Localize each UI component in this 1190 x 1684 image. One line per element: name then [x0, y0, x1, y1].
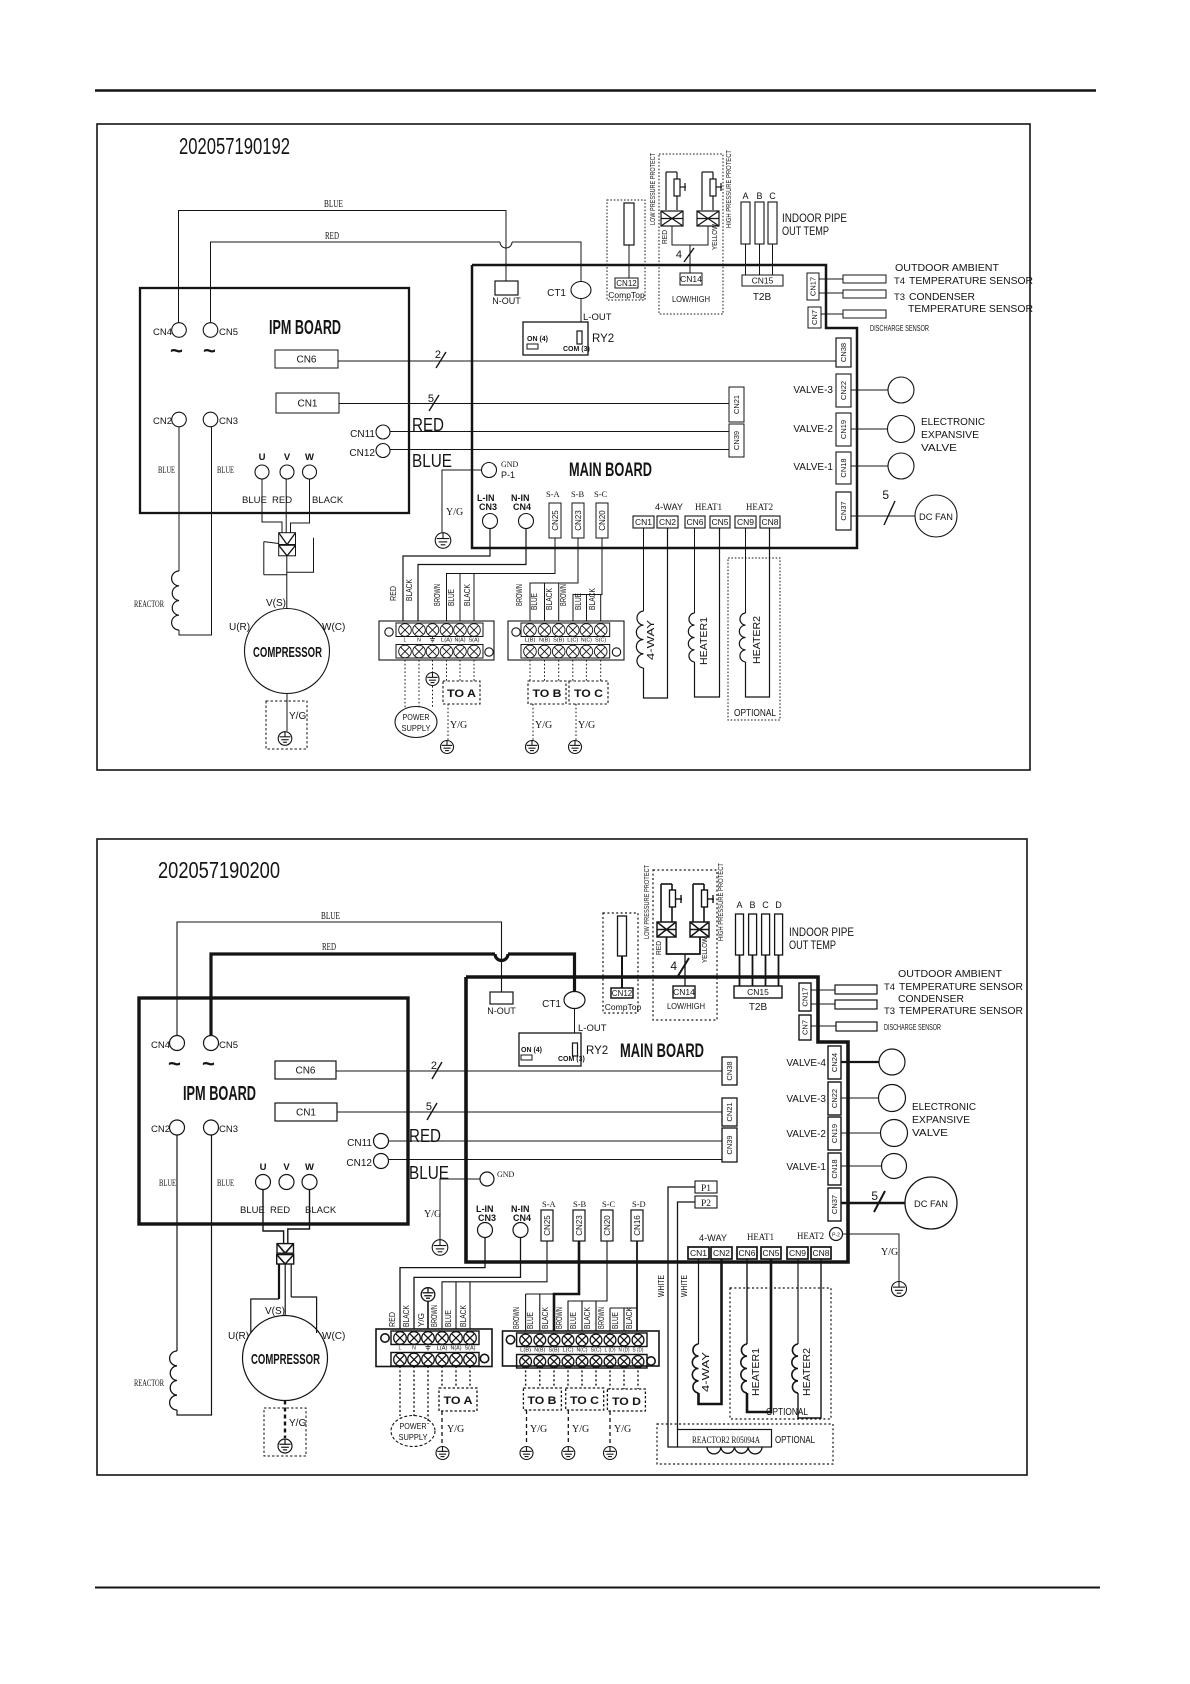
svg-text:VALVE: VALVE	[921, 443, 957, 454]
svg-text:S-B: S-B	[571, 489, 585, 499]
valve-3 coil (d2)	[879, 1085, 906, 1112]
wire CN18 to valve-1 (d2)	[841, 1165, 881, 1167]
wire compressor to ground (d2)	[284, 1401, 286, 1439]
diagram 1 border frame	[97, 124, 1030, 770]
wire label BLUE under CN3 (d1)	[217, 465, 234, 475]
svg-text:VALVE-1: VALVE-1	[793, 462, 833, 473]
wire CN19 to valve-2 (d2)	[841, 1132, 880, 1134]
wires to TO B box (d2)	[526, 1366, 554, 1388]
wire CN19 to valve-2 (d1)	[851, 428, 887, 430]
label BLACK tb1 (d1)	[405, 578, 414, 601]
connector CN8 heat (d2)	[811, 1247, 831, 1259]
wire CN1 to CN21 with 5-slash (d2)	[337, 1101, 722, 1120]
label S-B (d2)	[573, 1199, 587, 1209]
AC tilde under CN5 (d1)	[203, 338, 216, 363]
svg-text:BLUE: BLUE	[159, 1178, 176, 1188]
IPM board title (d1)	[269, 317, 341, 339]
ground symbol P-2 (d2)	[892, 1282, 907, 1297]
4-way valve coil (d2)	[692, 1259, 721, 1404]
svg-text:CN38: CN38	[725, 1061, 734, 1080]
connector CN25 (d2)	[541, 1210, 553, 1241]
svg-text:HEATER1: HEATER1	[699, 617, 710, 665]
svg-text:W(C): W(C)	[322, 622, 345, 633]
connector CN22 (d1)	[836, 374, 851, 407]
label outdoor ambient (d1)	[894, 263, 1033, 315]
svg-text:B: B	[749, 900, 755, 910]
svg-text:RED: RED	[270, 1205, 290, 1216]
svg-text:N(C): N(C)	[581, 638, 592, 644]
svg-text:CN37: CN37	[839, 501, 848, 520]
connector CN16 (d2)	[631, 1210, 643, 1241]
svg-text:BROWN: BROWN	[512, 1307, 521, 1329]
plug A (d2)	[736, 900, 744, 986]
wire BLUE CN12 to CN39 (d2)	[389, 1160, 723, 1184]
svg-text:VALVE-2: VALVE-2	[793, 424, 833, 435]
wire TO C to ground (d2)	[567, 1410, 569, 1445]
svg-text:MAIN BOARD: MAIN BOARD	[569, 460, 652, 481]
svg-text:Y/G: Y/G	[572, 1424, 589, 1435]
svg-text:N(B): N(B)	[534, 1348, 545, 1354]
wire W to rectifier (d1)	[291, 479, 310, 533]
svg-text:RY2: RY2	[586, 1045, 608, 1057]
wire earth to ground (d1)	[432, 660, 434, 707]
svg-text:CONDENSER: CONDENSER	[909, 292, 975, 303]
svg-text:N-OUT: N-OUT	[492, 296, 521, 306]
connector CN1 4way (d1)	[633, 516, 654, 528]
svg-text:Y/G: Y/G	[881, 1247, 898, 1258]
svg-text:CN6: CN6	[738, 1248, 755, 1258]
svg-text:BLUE: BLUE	[242, 495, 267, 506]
svg-text:HEATER2: HEATER2	[802, 1348, 813, 1396]
label BROWN tb2 (d1)	[515, 584, 524, 606]
MAIN BOARD outline (d1)	[472, 265, 857, 548]
label U(R) (d1)	[229, 622, 250, 633]
junction box TO A (d2)	[439, 1388, 477, 1411]
connector CN12 CompTop (d1)	[608, 278, 645, 300]
connector CN37 (d2)	[828, 1188, 841, 1221]
plug D (d2)	[775, 900, 783, 986]
wire L-IN CN3 to terminal L (d2)	[400, 1238, 485, 1330]
label outdoor ambient (d2)	[884, 969, 1023, 1017]
svg-text:T3: T3	[884, 1006, 895, 1017]
svg-text:S-B: S-B	[573, 1199, 587, 1209]
wire reactor to CN3 (d2)	[177, 1135, 212, 1415]
wire CN16 to terminals D (d2)	[610, 1241, 637, 1331]
connector CN3 (d1)	[203, 412, 238, 427]
svg-text:~: ~	[202, 1051, 215, 1076]
label HEAT1 (d2)	[747, 1232, 774, 1242]
svg-text:VALVE-3: VALVE-3	[793, 385, 833, 396]
discharge sensor (d2)	[836, 1022, 877, 1031]
svg-text:HEAT2: HEAT2	[746, 502, 773, 512]
svg-text:IPM BOARD: IPM BOARD	[269, 317, 341, 339]
svg-text:RED: RED	[412, 415, 444, 435]
svg-text:4-WAY: 4-WAY	[699, 1233, 727, 1243]
svg-text:CN20: CN20	[598, 510, 607, 531]
wire CN23 to terminals B (d2)	[526, 1241, 579, 1331]
connector L-IN CN3 (d1)	[477, 493, 498, 529]
valve-4 coil (d2)	[879, 1049, 905, 1075]
wire L to power supply (d1)	[404, 660, 406, 708]
wire switches to CN14 with 4-slash (d2)	[667, 937, 701, 986]
MAIN BOARD outline (d2)	[466, 977, 848, 1262]
connector N-IN CN4 (d2)	[511, 1204, 531, 1238]
svg-text:RY2: RY2	[592, 333, 614, 345]
label REACTOR (d2)	[134, 1378, 164, 1388]
funnel left to compressor (d2)	[251, 1299, 279, 1333]
svg-text:N(A): N(A)	[455, 638, 466, 644]
svg-text:RED: RED	[409, 1126, 441, 1146]
svg-text:RED: RED	[322, 942, 336, 953]
MAIN BOARD title (d2)	[620, 1041, 704, 1062]
svg-text:Y/G: Y/G	[578, 720, 595, 731]
connector CN38 (d1)	[836, 338, 851, 367]
svg-text:COMPRESSOR: COMPRESSOR	[251, 1351, 320, 1368]
svg-text:DC FAN: DC FAN	[919, 512, 953, 523]
svg-text:W: W	[305, 1162, 314, 1173]
wire TO C to ground (d1)	[575, 704, 577, 740]
svg-text:CN19: CN19	[830, 1124, 839, 1143]
svg-text:5: 5	[871, 1189, 878, 1203]
low/high dashed box (d1)	[659, 154, 723, 314]
wire CN25 to terminals A (d1)	[447, 538, 556, 621]
connector CN11 (d2)	[347, 1134, 388, 1150]
svg-text:T4: T4	[884, 982, 895, 993]
wires to TO A box (d2)	[442, 1366, 470, 1388]
junction box TO C (d1)	[569, 681, 608, 704]
svg-text:HEATER1: HEATER1	[751, 1348, 762, 1396]
label BROWN tb1 (d2)	[430, 1305, 439, 1327]
svg-text:YELLOW: YELLOW	[710, 223, 719, 250]
svg-text:HIGH PRESSURE PROTECT: HIGH PRESSURE PROTECT	[724, 150, 733, 228]
label U(R) (d2)	[228, 1331, 249, 1342]
svg-text:A: A	[742, 191, 748, 201]
wire label RED (V) (d2)	[270, 1205, 290, 1216]
svg-text:BLACK: BLACK	[402, 1304, 411, 1327]
svg-text:OPTIONAL: OPTIONAL	[775, 1434, 815, 1446]
svg-text:BLUE: BLUE	[321, 911, 340, 922]
svg-text:CN4: CN4	[153, 327, 172, 338]
svg-text:CN11: CN11	[350, 429, 375, 440]
svg-text:CT1: CT1	[542, 999, 561, 1010]
svg-text:D: D	[775, 900, 782, 910]
wire BLUE CN4 to N-OUT (d2)	[177, 922, 502, 1035]
svg-text:BLUE: BLUE	[447, 589, 456, 606]
svg-text:CN17: CN17	[809, 277, 818, 296]
svg-text:ON (4): ON (4)	[527, 336, 548, 343]
terminal W (d2)	[302, 1162, 317, 1190]
wire switches to CN14 with 4-slash (d1)	[672, 226, 708, 273]
svg-text:CN14: CN14	[673, 987, 695, 997]
wire compressor to ground (d1)	[286, 694, 288, 732]
label VALVE-4 (d2)	[786, 1058, 826, 1069]
svg-text:S(A): S(A)	[465, 1346, 476, 1352]
high pressure switch (d1)	[702, 172, 722, 210]
connector CN5 (d1)	[203, 323, 238, 338]
connector CN23 (d1)	[572, 503, 584, 538]
svg-text:CN9: CN9	[737, 517, 754, 527]
svg-text:A: A	[736, 900, 742, 910]
connector CN4 (d2)	[151, 1036, 185, 1052]
wire CN22 to valve-3 (d2)	[841, 1097, 878, 1099]
reactor coil (d2)	[170, 1351, 177, 1410]
connector L-IN CN3 (d2)	[476, 1204, 496, 1238]
sensor T4 (d2)	[835, 985, 877, 994]
label W(C) (d2)	[322, 1331, 345, 1342]
svg-text:OUT TEMP: OUT TEMP	[789, 940, 836, 952]
wire CN37 to DC FAN with 5-slash (d2)	[841, 1189, 905, 1212]
svg-text:S-A: S-A	[542, 1199, 557, 1209]
svg-text:CN12: CN12	[346, 1158, 372, 1169]
svg-text:CN8: CN8	[812, 1248, 829, 1258]
svg-text:CN24: CN24	[830, 1053, 839, 1072]
label Y/G TO C (d1)	[578, 720, 595, 731]
wire U to rectifier (d2)	[263, 1189, 284, 1244]
svg-text:EXPANSIVE: EXPANSIVE	[912, 1115, 970, 1126]
svg-text:TEMPERATURE SENSOR: TEMPERATURE SENSOR	[908, 304, 1033, 315]
wire TO B to ground (d2)	[526, 1410, 528, 1445]
wire P1 to reactor2 (d2)	[668, 1187, 695, 1447]
plug B (d1)	[755, 191, 764, 275]
label OPTIONAL heater (d2)	[766, 1407, 808, 1418]
svg-text:N: N	[417, 638, 421, 644]
label DISCHARGE SENSOR (d2)	[884, 1023, 941, 1032]
svg-text:N (D): N (D)	[619, 1348, 630, 1354]
svg-text:VALVE-4: VALVE-4	[786, 1058, 826, 1069]
svg-text:L-OUT: L-OUT	[578, 1023, 607, 1034]
label L-OUT (d2)	[578, 1023, 607, 1034]
junction box TO C (d2)	[566, 1388, 604, 1410]
label S-A (d2)	[542, 1199, 557, 1209]
svg-text:BLACK: BLACK	[583, 1306, 592, 1329]
POWER SUPPLY source (d2)	[391, 1416, 435, 1447]
wire label BLACK (W) (d1)	[312, 495, 344, 506]
label Y/G TO A (d2)	[447, 1424, 464, 1435]
wires to TO B box (d1)	[530, 660, 559, 681]
svg-text:BLUE: BLUE	[526, 1312, 535, 1329]
svg-text:5: 5	[428, 393, 434, 405]
svg-text:T2B: T2B	[749, 1002, 768, 1013]
label W(C) (d1)	[322, 622, 345, 633]
reactor2 body (d2)	[678, 1430, 772, 1448]
terminal block 1 (d1)	[379, 621, 494, 660]
svg-text:CN22: CN22	[830, 1089, 839, 1108]
connector CN37 (d1)	[836, 492, 851, 530]
CompTop thermal sensor (d1)	[624, 203, 634, 245]
svg-text:HEAT2: HEAT2	[797, 1231, 824, 1241]
connector CN21 (d2)	[722, 1098, 737, 1126]
wire BLUE label (d2)	[321, 911, 340, 922]
label BLACK tb2 (d2)	[541, 1306, 550, 1329]
label RED vertical (d1)	[660, 229, 669, 244]
heater2 coil (d2)	[792, 1259, 821, 1418]
heater2 optional box (d1)	[728, 558, 780, 720]
wire CN7 to discharge sensor (d2)	[811, 1025, 836, 1027]
svg-text:OUTDOOR AMBIENT: OUTDOOR AMBIENT	[898, 969, 1002, 980]
svg-text:L(A): L(A)	[437, 1346, 448, 1352]
wire RED CN11 to CN39 (d1)	[390, 415, 729, 435]
CompTop thermal sensor (d2)	[618, 916, 627, 956]
IPM board frame (d2)	[139, 998, 408, 1224]
rectifier diodes (d1)	[264, 533, 314, 575]
current transformer CT1 (d2)	[542, 992, 585, 1011]
reactor coil (d1)	[172, 571, 179, 630]
svg-text:V: V	[283, 1162, 290, 1173]
svg-text:CN3: CN3	[479, 502, 497, 512]
wire L-IN CN3 to terminal L (d1)	[403, 529, 490, 622]
label LOW PRESSURE PROTECT (d2)	[642, 865, 651, 939]
svg-text:BLUE: BLUE	[569, 1312, 578, 1329]
wire label BLUE (U) (d2)	[240, 1205, 265, 1216]
junction box TO B (d2)	[523, 1388, 561, 1410]
svg-text:S(A): S(A)	[469, 638, 480, 644]
AC tilde under CN4 (d2)	[168, 1051, 181, 1076]
svg-text:~: ~	[168, 1051, 181, 1076]
svg-text:OPTIONAL: OPTIONAL	[734, 708, 776, 719]
label S-D (d2)	[632, 1199, 646, 1209]
svg-text:CN22: CN22	[839, 381, 848, 400]
wire reactor to CN3 (d1)	[179, 427, 212, 635]
svg-text:CN12: CN12	[616, 279, 637, 288]
label INDOOR PIPE OUT TEMP (d2)	[789, 927, 854, 952]
svg-text:L(B): L(B)	[520, 1348, 531, 1354]
funnel right to compressor (d2)	[291, 1297, 316, 1333]
connector CN15 (d1)	[742, 275, 783, 303]
svg-text:RED: RED	[325, 231, 339, 242]
connector CN18 (d1)	[836, 452, 851, 484]
connector CN5 heat (d2)	[761, 1247, 781, 1259]
connector CN6 heat (d2)	[737, 1247, 757, 1259]
wire CT1 to RY2 (d2)	[574, 1009, 576, 1034]
low pressure switch (d1)	[666, 172, 686, 210]
top horizontal rule	[95, 89, 1096, 92]
svg-text:4-WAY: 4-WAY	[646, 620, 657, 660]
sensor T3 (d1)	[843, 290, 886, 298]
label REACTOR (d1)	[134, 599, 164, 609]
svg-text:CN20: CN20	[603, 1215, 612, 1236]
svg-text:CN3: CN3	[478, 1213, 496, 1223]
CompTop dashed box (d1)	[607, 200, 645, 300]
svg-text:EXPANSIVE: EXPANSIVE	[921, 430, 979, 441]
wire label BLACK (W) (d2)	[305, 1205, 337, 1216]
svg-text:CompTop: CompTop	[608, 290, 645, 300]
svg-text:CN16: CN16	[633, 1215, 642, 1236]
label electronic expansive valve (d1)	[921, 417, 985, 454]
label HEAT1 (d1)	[695, 502, 722, 512]
svg-text:BROWN: BROWN	[433, 584, 442, 606]
svg-text:CN21: CN21	[725, 1102, 734, 1121]
svg-text:ON (4): ON (4)	[521, 1047, 542, 1054]
svg-text:CN19: CN19	[839, 420, 848, 439]
heater1 coil (d1)	[688, 528, 719, 697]
wire label BLUE under CN2 (d2)	[159, 1178, 176, 1188]
connector CN22 (d2)	[828, 1082, 841, 1115]
wire CN25 to terminals A (d2)	[442, 1241, 547, 1329]
valve-1 coil (d1)	[888, 453, 914, 479]
connector CN14 (d1)	[672, 273, 710, 304]
svg-text:BLUE: BLUE	[240, 1205, 265, 1216]
connector CN38 (d2)	[722, 1057, 737, 1085]
wire label BLUE (U) (d1)	[242, 495, 267, 506]
diagram 2 title 202057190200	[158, 857, 280, 883]
valve-1 coil (d2)	[882, 1154, 907, 1179]
plug C (d2)	[762, 900, 770, 986]
label Y/G TO B (d1)	[535, 720, 552, 731]
connector CN12 CompTop (d2)	[605, 988, 642, 1012]
label BLUE tb2c (d2)	[569, 1312, 578, 1329]
svg-text:BROWN: BROWN	[515, 584, 524, 606]
wire label BLUE under CN2 (d1)	[158, 465, 175, 475]
svg-text:202057190200: 202057190200	[158, 857, 280, 883]
wire V to rectifier (d1)	[285, 479, 287, 533]
wire CN17 to T4 (d1)	[819, 278, 843, 280]
svg-text:GND: GND	[497, 1170, 515, 1179]
ground symbol left (d2)	[432, 1240, 448, 1256]
svg-text:U: U	[259, 452, 266, 463]
svg-text:BLUE: BLUE	[530, 593, 539, 610]
svg-text:TO B: TO B	[528, 1395, 557, 1407]
connector CN9 heat (d1)	[735, 516, 756, 528]
svg-text:HEAT1: HEAT1	[695, 502, 722, 512]
wire sensor to CN12 (d2)	[621, 956, 623, 988]
svg-text:CN7: CN7	[801, 1020, 810, 1035]
terminal V (d2)	[279, 1162, 294, 1190]
wire CT1 to RY2 (d1)	[580, 299, 582, 323]
svg-text:TO A: TO A	[447, 688, 476, 700]
label BROWN tb2b (d1)	[559, 584, 568, 606]
label V(S) (d2)	[265, 1306, 285, 1317]
svg-text:BLACK: BLACK	[625, 1306, 634, 1329]
wire CN7 to discharge sensor (d1)	[821, 313, 843, 315]
connector CN6 heat (d1)	[685, 516, 705, 528]
connector CN1 box (d2)	[275, 1103, 337, 1121]
svg-text:CN39: CN39	[732, 431, 741, 450]
svg-text:CN17: CN17	[801, 987, 810, 1006]
heater optional box (d2)	[730, 1288, 831, 1419]
wire label BLUE under CN3 (d2)	[217, 1178, 234, 1188]
svg-text:TO A: TO A	[444, 1395, 473, 1407]
connector CN6 box (d2)	[275, 1061, 336, 1079]
svg-text:W(C): W(C)	[322, 1331, 345, 1342]
current transformer CT1 (d1)	[547, 282, 591, 300]
connector CN20 (d2)	[601, 1210, 613, 1241]
svg-text:T3: T3	[894, 292, 905, 303]
svg-text:CompTop: CompTop	[605, 1002, 642, 1012]
rectifier diodes (d2)	[277, 1244, 294, 1264]
svg-text:COM (3): COM (3)	[563, 346, 590, 353]
svg-text:P-2: P-2	[832, 1233, 840, 1239]
svg-text:4: 4	[670, 959, 677, 973]
svg-text:L(C): L(C)	[563, 1348, 574, 1354]
svg-text:OPTIONAL: OPTIONAL	[766, 1407, 808, 1418]
label 4-WAY (d1)	[655, 502, 683, 512]
wire BLUE label (d1)	[324, 199, 343, 210]
MAIN BOARD title (d1)	[569, 460, 652, 481]
svg-text:RED: RED	[660, 229, 669, 244]
terminal V (d1)	[280, 452, 294, 479]
wire CN2 to reactor (d1)	[178, 427, 180, 571]
connector CN14 (d2)	[667, 986, 705, 1011]
high pressure contact (d1)	[697, 211, 719, 226]
relay RY2 (d2)	[519, 1033, 608, 1066]
IPM board title (d2)	[183, 1083, 256, 1105]
svg-text:P1: P1	[701, 1184, 711, 1194]
connector CN1 box (d1)	[276, 393, 339, 413]
wire CN20 to terminals C (d1)	[573, 538, 602, 621]
svg-text:BLUE: BLUE	[412, 451, 452, 471]
svg-text:Y/G: Y/G	[289, 711, 306, 722]
svg-text:L(C): L(C)	[567, 638, 578, 644]
